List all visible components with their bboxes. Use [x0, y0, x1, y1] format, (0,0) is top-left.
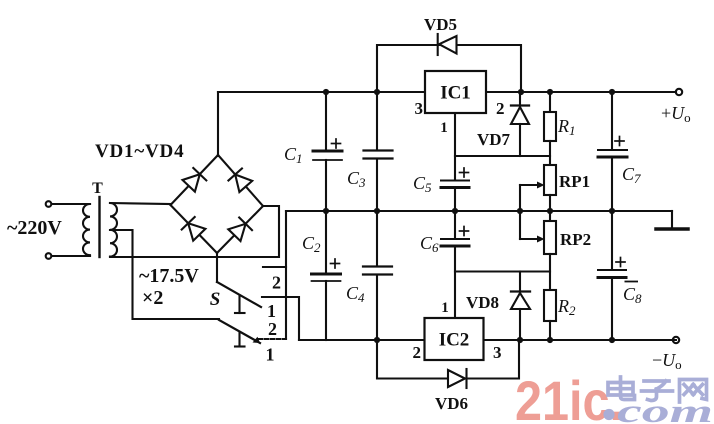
potentiometer RP1 wiper — [520, 182, 545, 212]
svg-text:2: 2 — [268, 319, 277, 339]
transformer core — [98, 197, 100, 257]
svg-text:C5: C5 — [413, 173, 432, 195]
IC1 regulator — [425, 71, 486, 113]
svg-text:1: 1 — [266, 345, 275, 365]
svg-text:2: 2 — [413, 343, 422, 362]
capacitor C7 — [598, 92, 627, 211]
svg-text:R1: R1 — [557, 116, 576, 138]
svg-text:S: S — [210, 289, 221, 310]
output terminal -Uo — [673, 337, 679, 343]
wire negative rail output side — [484, 339, 677, 341]
potentiometer RP1 — [544, 165, 556, 211]
svg-text:C3: C3 — [347, 168, 366, 190]
watermark 21ic.com dianziwang — [515, 369, 713, 424]
svg-text:R2: R2 — [557, 296, 576, 318]
diode VD4 (bridge lower-right) — [228, 218, 252, 242]
switch S pole 2 arm — [219, 320, 260, 347]
wire V1 (mid rail drop to switch) — [285, 211, 287, 339]
capacitor C5 — [441, 168, 469, 211]
diode VD3 (bridge lower-left) — [182, 217, 206, 241]
svg-text:C2: C2 — [302, 233, 321, 255]
svg-text:3: 3 — [493, 343, 502, 362]
diode VD2 (bridge upper-right) — [228, 169, 252, 193]
wire VD5 branch — [377, 45, 521, 92]
watermark char wang — [680, 380, 707, 403]
svg-text:RP2: RP2 — [560, 230, 591, 249]
wire IC1 pin1 drop — [454, 113, 456, 180]
diode VD1 (bridge upper-left) — [183, 168, 207, 192]
svg-text:−Uo: −Uo — [652, 350, 682, 372]
transformer T secondary winding — [110, 203, 117, 257]
bridge rectifier diamond — [171, 155, 264, 253]
wire center tap — [110, 230, 219, 319]
svg-text:VD6: VD6 — [435, 394, 468, 413]
svg-text:C6: C6 — [420, 233, 439, 255]
svg-text:C8: C8 — [623, 284, 642, 306]
capacitor C2 — [312, 211, 341, 340]
svg-text:VD8: VD8 — [466, 293, 499, 312]
potentiometer RP2 — [544, 211, 556, 290]
svg-text:2: 2 — [496, 99, 505, 118]
wire bridge bottom to switch pivot — [216, 253, 218, 282]
wire switch contact 2 upper — [263, 266, 286, 268]
switch S pole 1 arm — [217, 282, 261, 313]
input terminal bottom — [46, 253, 52, 259]
svg-text:1: 1 — [440, 120, 448, 136]
svg-text:com: com — [617, 394, 713, 424]
resistor R1 — [544, 92, 556, 165]
transformer T primary winding — [83, 204, 90, 256]
wire input bottom — [52, 255, 90, 257]
wire switch contact 1 upper — [262, 297, 299, 340]
resistor R2 — [544, 290, 556, 340]
wire adjust line lower — [455, 270, 550, 272]
wire secondary bottom to bridge right (AC2) — [110, 206, 279, 257]
IC2 regulator — [425, 318, 484, 360]
svg-text:VD7: VD7 — [477, 130, 511, 149]
svg-text:2: 2 — [272, 273, 281, 293]
svg-text:RP1: RP1 — [559, 172, 590, 191]
capacitor C3 — [364, 92, 393, 211]
wire bridge top riser to +rail — [217, 92, 219, 156]
diode VD6 branch — [377, 340, 519, 388]
svg-text:~17.5V: ~17.5V — [139, 265, 199, 287]
svg-text:~220V: ~220V — [7, 217, 62, 239]
svg-text:1: 1 — [267, 301, 276, 321]
ground — [656, 211, 688, 229]
svg-text:VD1~VD4: VD1~VD4 — [95, 141, 184, 162]
capacitor C8 — [598, 211, 626, 340]
diode VD8 — [511, 272, 530, 341]
potentiometer RP2 wiper — [520, 211, 545, 243]
wire switch contact 1 lower (dotted) — [259, 338, 286, 340]
wire +rail left — [218, 91, 425, 93]
svg-text:IC2: IC2 — [439, 330, 470, 351]
capacitor C1 — [313, 92, 342, 211]
wire adjust line upper — [455, 155, 550, 157]
svg-text:C4: C4 — [346, 283, 365, 305]
wire secondary top to bridge — [110, 203, 171, 204]
svg-text:C7: C7 — [622, 164, 641, 186]
svg-text:+Uo: +Uo — [661, 103, 691, 125]
output terminal +Uo — [676, 89, 682, 95]
wire negative rail input side — [299, 339, 425, 341]
diode VD7 — [511, 92, 529, 156]
svg-text:VD5: VD5 — [424, 15, 457, 34]
svg-text:IC1: IC1 — [440, 83, 471, 104]
watermark char dian — [608, 377, 635, 400]
svg-text:3: 3 — [415, 99, 424, 118]
watermark char zi — [642, 381, 673, 401]
svg-text:T: T — [92, 180, 103, 197]
svg-text:C1: C1 — [284, 144, 303, 166]
capacitor C6 — [441, 211, 469, 318]
diode VD5 — [438, 34, 457, 55]
svg-text:×2: ×2 — [142, 287, 163, 309]
wire +rail right — [486, 91, 676, 93]
wire mid rail (ground rail) — [286, 210, 672, 212]
capacitor C4 — [363, 211, 392, 340]
wire input top — [52, 203, 90, 205]
junction dots — [323, 89, 615, 343]
svg-text:1: 1 — [441, 300, 449, 316]
input terminal top — [46, 201, 52, 207]
